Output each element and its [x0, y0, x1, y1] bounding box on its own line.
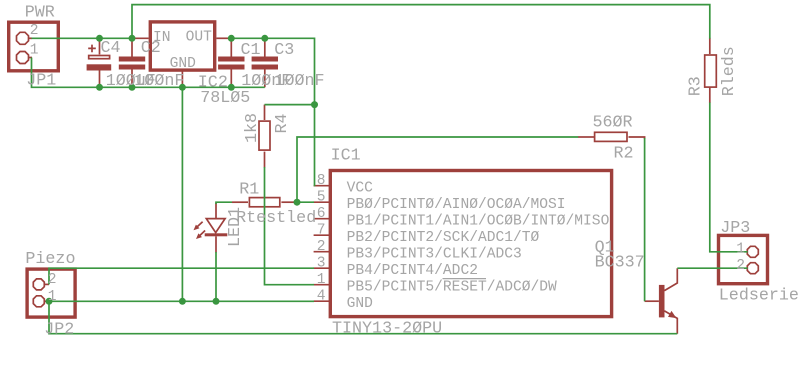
svg-text:C3: C3 — [274, 41, 294, 60]
capacitor C3 plates — [252, 57, 278, 62]
svg-text:Rtestled: Rtestled — [236, 209, 316, 228]
svg-text:BC337: BC337 — [595, 253, 645, 272]
IC1 pin 3 stub — [314, 267, 330, 269]
transistor Q1 collector — [664, 268, 677, 290]
IC1 pin 5 stub — [314, 201, 330, 203]
svg-text:R2: R2 — [614, 144, 634, 163]
connector JP2 — [27, 269, 75, 317]
node junction IC2 GND — [179, 84, 186, 91]
wire GND row from JP2 pin1 to IC1 pin 4 — [49, 300, 314, 302]
JP2 pin 1 stub — [44, 300, 49, 302]
svg-text:PB2/PCINT2/SCK/ADC1/TØ: PB2/PCINT2/SCK/ADC1/TØ — [347, 230, 540, 246]
svg-text:IN: IN — [153, 30, 171, 46]
microcontroller IC1 box — [330, 171, 611, 317]
svg-text:PB5/PCINT5/RESET/ADCØ/DW: PB5/PCINT5/RESET/ADCØ/DW — [347, 280, 557, 296]
svg-text:Rleds: Rleds — [720, 46, 739, 96]
resistor R2 left stub — [578, 136, 594, 138]
resistor R4 body — [259, 121, 270, 150]
svg-text:4: 4 — [317, 289, 326, 305]
node junction C4 top — [96, 35, 103, 42]
wire 5V branch to R4 top — [265, 104, 315, 106]
wire R1 left to LED1 anode corner — [216, 202, 232, 204]
wire GND drop from JP2 pin1 down and across to Q1 emitter — [49, 301, 677, 333]
capacitor C3 bottom wire — [264, 70, 266, 88]
svg-text:C1: C1 — [241, 41, 261, 60]
IC2 IN pin stub — [132, 37, 149, 39]
voltage regulator IC2 box — [150, 22, 214, 70]
IC1 pin 8 stub — [314, 185, 330, 187]
svg-text:LED1: LED1 — [226, 207, 245, 247]
capacitor C2 top wire — [131, 38, 133, 56]
resistor R2 body — [595, 132, 627, 141]
svg-text:TINY13-2ØPU: TINY13-2ØPU — [332, 319, 442, 338]
JP2 pin 1 pad — [33, 296, 44, 307]
svg-text:JP3: JP3 — [720, 219, 750, 238]
wire JP2 pin2 up and across to IC1 pin 3 — [49, 268, 314, 284]
node junction C3 top — [261, 35, 268, 42]
connector JP3 — [719, 235, 768, 283]
node junction C4 bottom — [96, 84, 103, 91]
svg-text:C4: C4 — [101, 39, 121, 58]
svg-text:1k8: 1k8 — [243, 113, 262, 143]
svg-text:IC1: IC1 — [331, 147, 361, 166]
JP1 pin 1 stub — [28, 57, 32, 59]
resistor R3 bottom wire — [709, 87, 711, 103]
IC1 pin 1 stub — [314, 284, 330, 286]
capacitor C4 top plate — [89, 56, 110, 59]
svg-text:1: 1 — [30, 42, 39, 58]
LED1 emission arrow 2 — [200, 231, 205, 236]
capacitor C1 bottom wire — [230, 70, 232, 88]
svg-text:2: 2 — [30, 23, 39, 39]
node junction LED1 cathode at GND row — [213, 298, 220, 305]
IC1 pin 7 stub — [314, 234, 330, 236]
IC2 GND pin stub — [181, 70, 183, 87]
transistor Q1 emitter — [664, 311, 677, 334]
LED1 cathode bar — [205, 233, 228, 236]
wire R2 right down to Q1 base — [644, 138, 646, 301]
LED1 emission arrow 1 — [197, 222, 202, 227]
svg-text:Piezo: Piezo — [25, 250, 75, 269]
svg-text:R4: R4 — [273, 113, 292, 133]
LED1 anode wire — [215, 203, 217, 218]
JP3 pin 2 pad — [747, 263, 758, 274]
IC1 pin 6 stub — [314, 218, 330, 220]
capacitor C4 plus sign — [88, 45, 96, 53]
svg-text:GND: GND — [347, 296, 374, 312]
RESET overline — [443, 278, 487, 280]
IC1 pin 2 stub — [314, 251, 330, 253]
wire GND vertical from IC2 GND rail down to GND row — [181, 87, 183, 301]
svg-text:Ledserie: Ledserie — [719, 287, 799, 306]
svg-text:1ØØnF: 1ØØnF — [275, 72, 325, 91]
wire LED1 cathode down to GND row — [215, 252, 217, 301]
node junction C2 top — [129, 35, 136, 42]
svg-text:5: 5 — [317, 190, 326, 206]
resistor R3 body — [705, 55, 717, 87]
svg-text:2: 2 — [48, 272, 57, 288]
svg-text:PBØ/PCINTØ/AINØ/OCØA/MOSI: PBØ/PCINTØ/AINØ/OCØA/MOSI — [347, 197, 566, 213]
resistor R2 right stub — [629, 137, 645, 139]
svg-text:1: 1 — [317, 272, 326, 288]
transistor Q1 base stub — [645, 300, 659, 302]
node junction C1 bottom — [228, 84, 235, 91]
svg-text:PWR: PWR — [25, 3, 55, 22]
svg-text:7: 7 — [317, 223, 326, 239]
JP1 pin 2 pad — [17, 32, 29, 44]
node junction C1 top — [228, 35, 235, 42]
svg-text:1: 1 — [736, 241, 745, 257]
transistor Q1 base bar — [659, 285, 665, 318]
svg-text:PB1/PCINT1/AIN1/OCØB/INTØ/MISO: PB1/PCINT1/AIN1/OCØB/INTØ/MISO — [347, 214, 610, 230]
resistor R1 body — [249, 198, 279, 207]
resistor R4 bottom wire — [264, 152, 266, 168]
JP1 pin 1 pad — [17, 52, 29, 64]
capacitor C2 plates — [119, 57, 145, 62]
JP2 pin 2 stub — [44, 283, 49, 285]
capacitor C4 bottom plate — [87, 64, 112, 70]
resistor R3 top wire — [709, 38, 711, 54]
wire R3 bottom down and right to JP3 pin 1 — [710, 103, 748, 252]
IC2 OUT pin stub — [216, 37, 231, 39]
resistor R4 top wire — [264, 105, 266, 120]
svg-text:PB4/PCINT4/ADC2: PB4/PCINT4/ADC2 — [347, 263, 478, 279]
svg-text:PB3/PCINT3/CLKI/ADC3: PB3/PCINT3/CLKI/ADC3 — [347, 247, 522, 263]
connector JP1 — [9, 22, 59, 71]
svg-text:R1: R1 — [239, 180, 259, 199]
wire Q1 collector to JP3 pin 2 — [677, 267, 747, 269]
wire PB0 up from junction and across to R2 left — [297, 137, 578, 202]
JP1 pin 2 stub — [28, 37, 32, 39]
svg-text:8: 8 — [317, 173, 326, 189]
node junction C2 bottom — [129, 84, 136, 91]
node junction 5V R4 branch — [311, 101, 318, 108]
svg-text:OUT: OUT — [186, 30, 213, 46]
svg-text:78LØ5: 78LØ5 — [200, 89, 250, 108]
svg-text:R3: R3 — [687, 76, 706, 96]
svg-text:3: 3 — [317, 256, 326, 272]
LED1 cathode wire — [215, 236, 217, 252]
JP2 pin 2 pad — [33, 279, 44, 290]
wire VIN rail from JP1 pin2 to IC2 IN — [32, 37, 134, 39]
capacitor C1 top wire — [230, 38, 232, 56]
resistor R1 left stub — [232, 201, 248, 203]
IC1 pin 4 stub — [314, 300, 330, 302]
capacitor C4 positive wire — [99, 38, 101, 54]
svg-text:GND: GND — [170, 56, 197, 72]
JP3 pin 1 pad — [747, 246, 758, 257]
LED1 triangle — [206, 219, 225, 233]
wire node PB0 from R1 right to IC1 pin 5 — [297, 201, 314, 203]
capacitor C4 negative wire — [99, 71, 101, 88]
svg-text:VCC: VCC — [347, 181, 374, 197]
wire GND rail from JP1 pin1 under capacitors — [32, 58, 265, 88]
wire R4 bottom down and right to IC1 pin 1 — [265, 167, 315, 285]
capacitor C1 plates — [218, 57, 244, 62]
node junction JP2 pin1 — [46, 298, 53, 305]
transistor Q1 emitter arrow — [668, 311, 676, 318]
resistor R1 right stub — [281, 201, 297, 203]
node junction PB0 at R1 — [294, 199, 301, 206]
wire raw-supply branch up and across top to R3 — [132, 5, 710, 39]
svg-text:56ØR: 56ØR — [593, 113, 633, 132]
svg-text:1: 1 — [48, 289, 57, 305]
node junction GND vertical at GND row — [179, 298, 186, 305]
capacitor C3 top wire — [264, 38, 266, 56]
svg-text:6: 6 — [317, 206, 326, 222]
svg-text:1ØØnF: 1ØØnF — [134, 72, 184, 91]
svg-text:2: 2 — [317, 239, 326, 255]
capacitor C2 bottom wire — [131, 70, 133, 88]
wire 5V rail from IC2 OUT to corner, down to IC1 VCC pin 8 — [231, 38, 314, 186]
svg-text:2: 2 — [736, 258, 745, 274]
svg-text:JP2: JP2 — [44, 320, 74, 339]
svg-text:JP1: JP1 — [26, 72, 56, 91]
